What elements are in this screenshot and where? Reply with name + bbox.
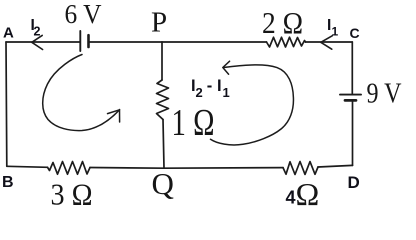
- resistor R2 2-ohm zigzag: [267, 37, 306, 47]
- loop arrow right mesh I2-I1: [211, 65, 294, 145]
- svg-text:B: B: [2, 174, 14, 191]
- svg-text:1: 1: [332, 24, 339, 38]
- battery B1 6V short plate: [87, 35, 90, 47]
- wire top-left A to battery: [6, 41, 80, 43]
- resistor R1 1-ohm vertical zigzag: [157, 80, 169, 120]
- svg-text:2: 2: [196, 85, 203, 100]
- svg-text:3 Ω: 3 Ω: [51, 177, 93, 211]
- battery B1 6V long plate: [79, 31, 81, 51]
- wire right C to 9V battery: [351, 42, 353, 94]
- battery B2 9V long plate: [340, 94, 361, 96]
- svg-text:D: D: [348, 173, 360, 192]
- svg-text:Q: Q: [152, 166, 174, 201]
- wire 4-ohm to Q: [164, 167, 283, 170]
- middle branch wire P down: [161, 42, 163, 80]
- wire battery to P: [90, 41, 163, 43]
- wire bottom D to 4-ohm: [318, 165, 353, 167]
- svg-text:P: P: [151, 7, 167, 39]
- wire 9V battery to D: [352, 102, 354, 166]
- svg-text:1: 1: [223, 85, 230, 100]
- node P junction wire P to 2-ohm: [162, 41, 267, 43]
- wire 2-ohm to C: [306, 41, 353, 43]
- current arrow I2 on top wire: [32, 35, 43, 49]
- wire 3-ohm to B: [7, 166, 48, 167]
- svg-text:1 Ω: 1 Ω: [172, 102, 215, 144]
- svg-text:I: I: [217, 77, 222, 95]
- svg-text:A: A: [3, 24, 14, 41]
- svg-text:9 V: 9 V: [367, 79, 402, 110]
- middle branch wire to Q: [163, 120, 164, 169]
- svg-text:2 Ω: 2 Ω: [262, 5, 303, 40]
- battery B2 9V short plate: [345, 99, 356, 102]
- svg-text:6 V: 6 V: [65, 0, 102, 29]
- resistor R3 3-ohm zigzag: [48, 162, 91, 175]
- wire Q to 3-ohm: [90, 167, 164, 170]
- wire left B to A: [5, 42, 8, 166]
- resistor R4 4-ohm zigzag: [283, 162, 318, 175]
- svg-text:-: -: [207, 77, 213, 95]
- svg-text:2: 2: [34, 25, 41, 39]
- loop arrow left mesh I2: [43, 55, 120, 131]
- svg-text:Ω: Ω: [296, 176, 320, 210]
- svg-text:4: 4: [286, 188, 296, 208]
- svg-text:C: C: [350, 25, 360, 41]
- current arrow I1 on top wire: [321, 36, 332, 49]
